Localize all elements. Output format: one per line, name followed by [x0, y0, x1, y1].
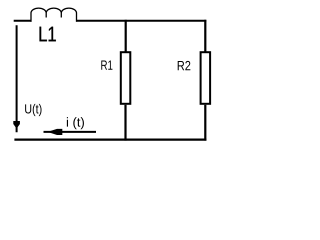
resistor R2	[201, 52, 211, 104]
wire: top-left horizontal stub	[14, 20, 32, 22]
label i (t)	[67, 117, 84, 129]
wire: bottom horizontal	[14, 139, 206, 141]
wire: right vertical bottom (R2 to bottom wire)	[204, 105, 206, 141]
label R1	[101, 61, 112, 70]
wire: R1 branch bottom	[124, 105, 126, 141]
wire: right vertical top (to R2)	[204, 20, 206, 52]
resistor R1	[121, 52, 131, 104]
inductor L1 cusp tail 1	[45, 13, 47, 18]
current arrow i(t) (shaft)	[44, 131, 97, 133]
voltage arrow U(t) (shaft)	[16, 25, 18, 132]
label R2	[178, 61, 191, 70]
label U(t)	[25, 104, 41, 116]
current arrow i(t) (head)	[48, 129, 63, 135]
wire: top horizontal from inductor to right corner	[76, 20, 206, 22]
inductor L1 (coil)	[31, 8, 77, 22]
inductor L1 cusp tail 2	[60, 13, 62, 18]
label L1	[40, 27, 56, 42]
voltage arrow U(t) (head)	[13, 121, 20, 129]
wire: R1 branch top	[125, 20, 127, 52]
